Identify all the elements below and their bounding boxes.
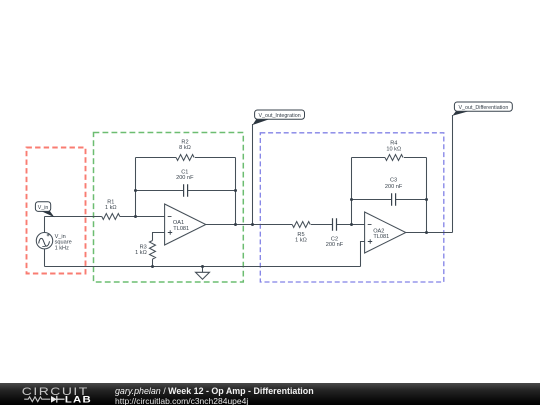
svg-text:V_in: V_in xyxy=(38,205,49,211)
resistor R4 xyxy=(385,155,403,161)
wire: OA1 output to OA2 inverting input through R5 and C2 xyxy=(206,224,365,226)
capacitor C2 xyxy=(333,218,337,231)
svg-text:200 nF: 200 nF xyxy=(326,242,344,248)
svg-text:V_out_Integration: V_out_Integration xyxy=(258,113,300,119)
svg-text:C3: C3 xyxy=(390,177,397,183)
svg-text:1 kΩ: 1 kΩ xyxy=(105,205,117,211)
resistor R5 xyxy=(292,222,310,228)
svg-text:8 kΩ: 8 kΩ xyxy=(179,145,191,151)
footer url text xyxy=(115,396,248,406)
junction at R3 on rail xyxy=(151,265,154,268)
node flag V_in xyxy=(42,210,55,217)
junction at OA1 inverting node xyxy=(134,215,137,218)
junction at OA2 inverting node xyxy=(350,223,353,226)
wire: bottom ground rail xyxy=(45,266,361,268)
wire: OA2 feedback right vertical xyxy=(426,158,428,233)
node flag V_out_Integration xyxy=(252,124,254,225)
ground symbol xyxy=(202,267,204,273)
capacitor C1 xyxy=(184,184,188,197)
node flag V_out_Differentiation xyxy=(452,115,454,233)
svg-text:1 kHz: 1 kHz xyxy=(55,246,70,252)
resistor R2 xyxy=(176,155,194,161)
op-amp OA2 TL081 xyxy=(365,212,406,253)
junction at ground stub xyxy=(201,265,204,268)
CircuitLab logo xyxy=(0,383,100,405)
junction at V_out_Integration tap xyxy=(251,223,254,226)
op-amp OA1 TL081 xyxy=(165,204,206,245)
junction at OA1 output / feedback xyxy=(234,223,237,226)
wire: R1 to inverting node xyxy=(120,216,165,218)
svg-text:LAB: LAB xyxy=(65,395,92,405)
wire: vertical from V_in corner down to source top xyxy=(44,217,46,233)
wire: R4 feedback top line xyxy=(352,157,427,159)
junction at C3 right xyxy=(425,198,428,201)
svg-text:200 nF: 200 nF xyxy=(176,175,194,181)
svg-text:TL081: TL081 xyxy=(173,226,189,232)
wire: OA2 feedback left vertical xyxy=(351,158,353,225)
junction at C1 left xyxy=(134,189,137,192)
wire: OA1 non-inverting input to R3 xyxy=(153,233,165,241)
svg-text:TL081: TL081 xyxy=(373,234,389,240)
svg-text:10 kΩ: 10 kΩ xyxy=(386,146,401,152)
resistor R1 xyxy=(102,214,120,220)
svg-text:V_out_Differentiation: V_out_Differentiation xyxy=(458,105,508,111)
junction at C3 left xyxy=(350,198,353,201)
wire: R2 feedback top line xyxy=(136,157,236,159)
footer title text xyxy=(115,386,314,396)
voltage source V_in (square 1 kHz) xyxy=(36,233,52,249)
footer bar xyxy=(0,383,540,405)
svg-text:1 kΩ: 1 kΩ xyxy=(295,238,307,244)
wire: V_in corner to R1 to OA1 inverting input xyxy=(45,216,102,218)
wire: source bottom to ground rail xyxy=(44,249,46,267)
green dashed annotation box around integrator stage xyxy=(94,133,244,283)
wire: R3 to ground rail xyxy=(152,259,154,266)
wire: C1 feedback line xyxy=(136,190,236,192)
wire: rail up to OA2 non-inverting input xyxy=(361,242,365,267)
wire: OA1 feedback right vertical xyxy=(235,158,237,225)
wire: C3 feedback line xyxy=(352,199,427,201)
resistor R3 xyxy=(150,241,156,260)
wire: OA2 output xyxy=(406,232,453,234)
junction at OA2 output / feedback xyxy=(425,231,428,234)
svg-text:200 nF: 200 nF xyxy=(385,184,403,190)
capacitor C3 xyxy=(392,193,396,206)
red dashed annotation box around source xyxy=(27,148,86,274)
blue dashed annotation box around differentiator stage xyxy=(260,133,444,282)
wire: OA1 feedback left vertical xyxy=(135,158,137,217)
svg-text:1 kΩ: 1 kΩ xyxy=(135,250,147,256)
junction at C1 right xyxy=(234,189,237,192)
